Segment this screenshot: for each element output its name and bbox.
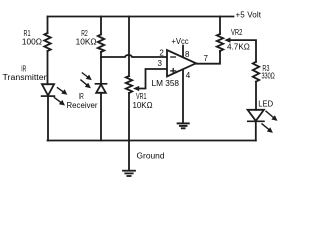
wire VR2 top	[219, 17, 221, 35]
wire VR1 top	[128, 17, 130, 77]
resistor R3	[253, 62, 259, 82]
wire R3 to LED	[255, 82, 257, 110]
wire pin 4 to ground	[182, 70, 184, 123]
svg-text:10KΩ: 10KΩ	[133, 101, 153, 110]
transmitter emission arrow 1	[57, 87, 65, 93]
svg-text:2: 2	[159, 48, 164, 57]
wire node to op-amp pin 2 (hop over VR1 wire)	[101, 55, 167, 57]
svg-text:Ground: Ground	[137, 152, 165, 161]
svg-text:100Ω: 100Ω	[22, 37, 42, 46]
wire R2 top	[100, 17, 102, 35]
svg-text:IR: IR	[79, 92, 84, 101]
wire ground bottom rail	[48, 140, 256, 142]
wire pin 8 +Vcc stub	[182, 46, 184, 57]
ground (op-amp pin 4)	[178, 122, 189, 124]
wire R2 to node	[100, 52, 102, 57]
wire op-amp output pin 7 to VR2 bottom	[196, 52, 220, 64]
svg-text:Transmitter: Transmitter	[3, 73, 47, 82]
wire LED to bottom rail	[255, 121, 257, 140]
svg-text:LM 358: LM 358	[152, 79, 180, 88]
VR1 wiper arrow	[133, 86, 139, 91]
op-amp U1 LM358	[167, 50, 196, 77]
wire node to receiver	[100, 57, 102, 84]
svg-text:+5 Volt: +5 Volt	[236, 11, 262, 20]
LED emission arrow 2	[262, 123, 271, 130]
svg-text:10KΩ: 10KΩ	[76, 37, 97, 46]
wire transmitter to bottom rail	[47, 96, 49, 140]
wire R1 to transmitter	[47, 51, 49, 84]
svg-text:7: 7	[204, 54, 209, 63]
svg-text:4: 4	[186, 71, 191, 80]
IR transmitter LED D1	[42, 84, 54, 95]
LED D3	[248, 110, 264, 121]
svg-text:330Ω: 330Ω	[262, 71, 275, 80]
wire VR1 to bottom rail and ground stem	[128, 93, 130, 170]
op-amp plus sign	[171, 69, 176, 74]
ground (main)	[123, 170, 135, 172]
svg-text:+Vcc: +Vcc	[171, 37, 188, 46]
wire VR2 wiper to R3	[229, 40, 257, 62]
op-amp minus sign	[171, 56, 176, 58]
wire +5V top rail	[48, 16, 234, 18]
wire VR2 bottom stub	[219, 51, 221, 52]
VR2 wiper arrow	[224, 38, 230, 43]
wire VR1 wiper to op-amp pin 3	[138, 69, 168, 89]
transmitter emission arrow 2	[54, 97, 63, 103]
svg-text:4.7KΩ: 4.7KΩ	[227, 43, 250, 52]
wire receiver to bottom rail	[100, 93, 102, 141]
svg-text:LED: LED	[258, 100, 273, 109]
resistor R2	[98, 34, 104, 52]
wire R1 top	[47, 17, 49, 34]
svg-text:8: 8	[185, 50, 190, 59]
potentiometer VR1	[126, 76, 132, 93]
receiver incoming arrow 1	[82, 73, 89, 79]
LED emission arrow 1	[266, 111, 275, 119]
svg-text:3: 3	[158, 59, 163, 68]
resistor R1	[44, 33, 50, 51]
svg-text:VR2: VR2	[231, 28, 243, 37]
IR receiver photodiode D2	[96, 83, 107, 85]
receiver incoming arrow 2	[80, 80, 88, 86]
potentiometer VR2	[217, 34, 223, 51]
svg-text:Receiver: Receiver	[67, 101, 98, 110]
